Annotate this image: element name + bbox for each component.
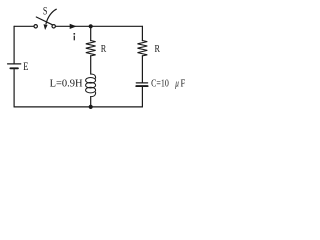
capacitor C top plate [136, 82, 147, 84]
capacitor C bottom plate [136, 85, 147, 87]
wire right-branch upper lead [141, 26, 143, 40]
wire bottom segment [14, 106, 142, 108]
wire between R and C (right branch) [141, 56, 143, 83]
svg-text:F: F [181, 77, 186, 89]
wire right-branch lower lead [141, 87, 143, 107]
inductor L coil [91, 74, 96, 78]
switch S left contact circle [34, 25, 37, 28]
wire left-branch upper lead [13, 26, 15, 63]
resistor R (right branch) [137, 41, 147, 56]
wire between R and L (middle branch) [90, 56, 92, 74]
svg-text:μ: μ [174, 79, 178, 90]
label i [73, 36, 75, 41]
current direction arrowhead [70, 24, 77, 29]
svg-text:L=0.9H: L=0.9H [50, 77, 83, 89]
switch S closing-motion arc arrow [46, 9, 56, 24]
switch S blade [36, 17, 52, 25]
svg-text:R: R [155, 43, 161, 55]
wire top-middle segment [56, 25, 143, 27]
wire middle-branch lower lead [90, 97, 92, 107]
wire top-left segment [14, 25, 34, 27]
wire left-branch lower lead [13, 69, 15, 107]
node bottom junction dot [89, 105, 93, 109]
battery E long plate [8, 63, 21, 65]
node top junction dot [89, 24, 93, 28]
battery E short plate [10, 67, 18, 69]
svg-text:R: R [101, 43, 107, 55]
svg-text:E: E [23, 59, 28, 73]
svg-text:C=10: C=10 [151, 78, 169, 90]
wire middle-branch upper lead [90, 26, 92, 40]
resistor R (middle branch) [86, 41, 96, 56]
switch S right contact circle [52, 25, 55, 28]
svg-text:S: S [43, 6, 48, 18]
